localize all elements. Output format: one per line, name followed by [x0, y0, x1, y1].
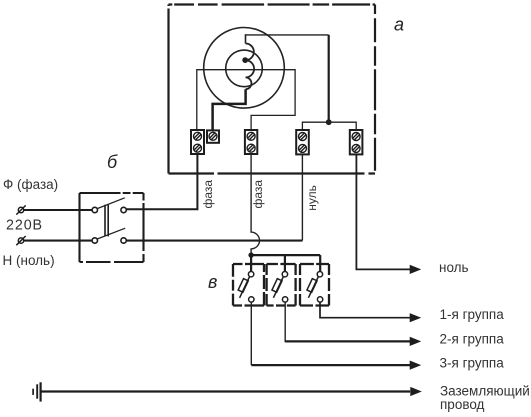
svg-text:ноль: ноль: [439, 260, 469, 275]
phase drop from T2 with hop over neutral: [251, 154, 259, 255]
svg-text:220В: 220В: [6, 218, 43, 234]
arrow ground: [410, 387, 422, 396]
svg-text:б: б: [107, 152, 118, 172]
ground wire: [41, 390, 411, 392]
switch contacts: [92, 207, 126, 243]
svg-text:фаза: фаза: [251, 180, 265, 209]
phase bus to fuse group: [251, 254, 320, 256]
terminal T2: [245, 130, 257, 154]
meter enclosure box A (dashed): [169, 5, 376, 174]
wire: right leg down to terminal T2: [251, 69, 295, 130]
ground symbol: [33, 382, 41, 401]
svg-text:1-я группа: 1-я группа: [440, 307, 505, 322]
voltage tap wire (horizontal chord): [197, 69, 295, 71]
breaker box 3 (dashed): [300, 264, 329, 306]
svg-text:Н (ноль): Н (ноль): [3, 253, 55, 268]
neutral input wire: [24, 240, 93, 242]
wire: neutral link to T3 and T4: [302, 122, 356, 130]
terminal T1: [191, 130, 204, 154]
thick neutral drop inside meter: [328, 35, 330, 122]
mechanical link bars: [105, 205, 108, 237]
switch blade bottom: [97, 228, 125, 239]
cable-entry symbol bottom (ø): [16, 236, 25, 245]
wire: vertical into coil: [245, 34, 247, 43]
meter disk inner circle: [226, 50, 263, 87]
coil arcs (winding symbol): [246, 44, 255, 90]
output 3-я группа from fuse 1: [250, 302, 252, 365]
breaker box 2 (dashed): [267, 264, 296, 306]
junction dot (phase bus): [248, 252, 253, 257]
switch box б (dashed): [80, 193, 144, 262]
breaker Q3 symbol: [307, 272, 323, 303]
breaker Q1 symbol: [238, 272, 254, 303]
feeder fuse 3: [319, 255, 321, 271]
current-coil thick lead to terminal: [213, 89, 246, 130]
T2 screws: [247, 132, 255, 140]
svg-text:нуль: нуль: [305, 185, 319, 211]
phase wire: switch to T1: [126, 154, 197, 209]
svg-text:а: а: [394, 15, 404, 35]
svg-text:в: в: [208, 272, 217, 292]
cable-entry symbol top (ø): [16, 205, 25, 214]
wire: top horizontal (voltage coil to neutral): [246, 34, 329, 36]
neutral riser to T3: [301, 154, 303, 240]
T4 screws: [352, 133, 360, 141]
switch blade top: [97, 198, 125, 209]
meter outer circle: [204, 28, 285, 109]
junction dot (neutral): [326, 119, 332, 125]
svg-text:2-я группа: 2-я группа: [440, 331, 505, 346]
neutral output wire: [356, 155, 410, 270]
svg-text:фаза: фаза: [201, 180, 215, 209]
breaker box 1 (dashed): [233, 264, 264, 306]
T1 screws: [194, 132, 202, 140]
meter axis dot: [242, 57, 248, 63]
output 1-я группа from fuse 3: [320, 302, 410, 318]
arrow 3-я группа: [410, 361, 422, 370]
arrow 1-я группа: [410, 313, 422, 322]
neutral wire: switch to T3 riser: [126, 240, 302, 242]
svg-text:провод: провод: [440, 397, 485, 412]
feeder fuse 2: [284, 255, 286, 271]
arrow 2-я группа: [410, 337, 422, 346]
small square screw: [209, 132, 217, 140]
feeder fuse 1: [250, 255, 252, 271]
output 2-я группа from fuse 2: [285, 302, 410, 342]
arrow ноль: [410, 265, 422, 274]
terminal T4: [350, 130, 363, 154]
T3 screws: [299, 133, 307, 141]
svg-text:Ф (фаза): Ф (фаза): [3, 177, 58, 192]
svg-text:3-я группа: 3-я группа: [440, 355, 505, 370]
terminal small square (current coil): [207, 130, 219, 142]
terminal T3: [296, 130, 309, 154]
wire: left leg to terminal T1: [196, 69, 198, 130]
breaker Q2 symbol: [272, 272, 288, 303]
phase input wire: [24, 209, 93, 211]
